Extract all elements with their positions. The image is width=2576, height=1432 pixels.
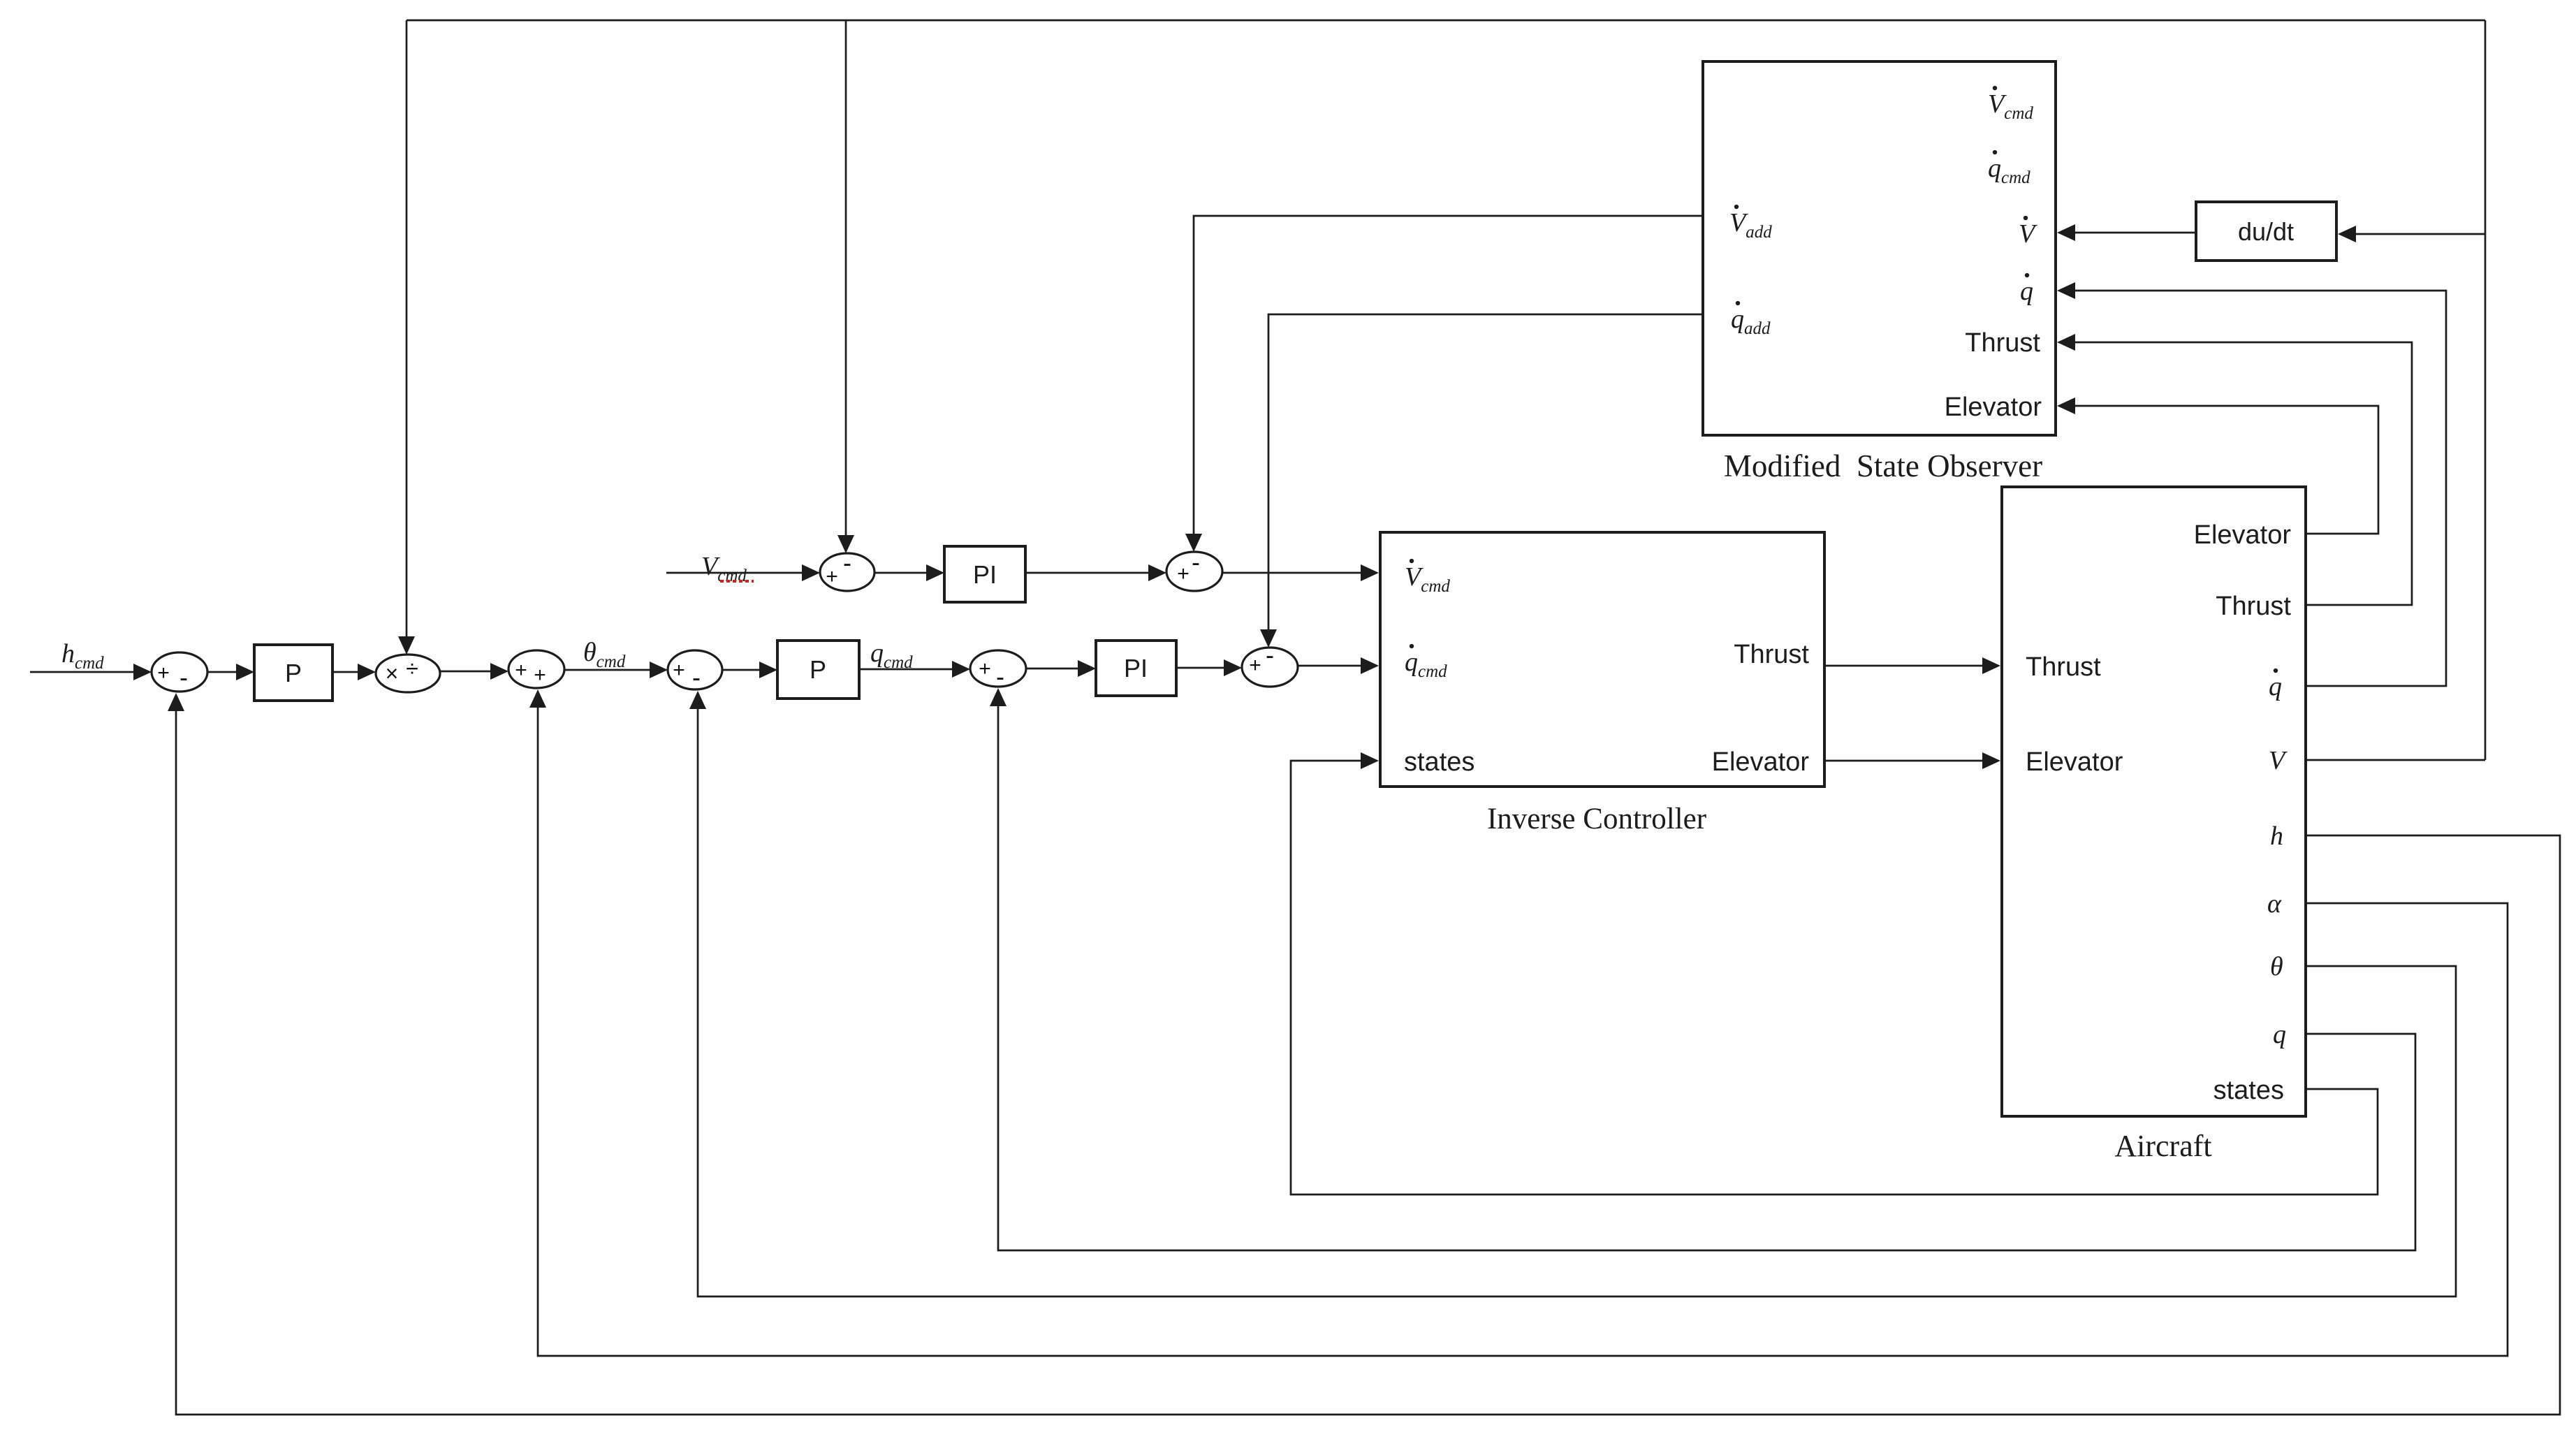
- svg-text:-: -: [180, 663, 188, 692]
- svg-text:÷: ÷: [406, 656, 418, 681]
- svg-text:V: V: [2269, 746, 2288, 775]
- svg-text:Elevator: Elevator: [1712, 747, 1810, 777]
- svg-text:-: -: [1192, 548, 1200, 576]
- svg-text:q: q: [2273, 1020, 2286, 1049]
- svg-text:-: -: [996, 662, 1004, 691]
- svg-text:+: +: [1249, 654, 1261, 677]
- svg-text:du/dt: du/dt: [2238, 217, 2294, 246]
- svg-text:×: ×: [386, 661, 399, 686]
- svg-text:PI: PI: [1124, 654, 1148, 682]
- svg-text:PI: PI: [973, 560, 997, 589]
- svg-text:Aircraft: Aircraft: [2114, 1129, 2211, 1163]
- svg-text:q: q: [2020, 277, 2033, 306]
- svg-text:Thrust: Thrust: [1965, 328, 2040, 358]
- svg-text:Thrust: Thrust: [1734, 640, 1809, 669]
- svg-text:α: α: [2267, 889, 2282, 919]
- svg-text:Elevator: Elevator: [2194, 520, 2292, 550]
- svg-text:V: V: [2019, 219, 2037, 249]
- svg-text:Modified State Observer: Modified State Observer: [1724, 448, 2042, 483]
- svg-text:+: +: [157, 662, 170, 685]
- svg-text:-: -: [1266, 641, 1274, 669]
- svg-text:+: +: [534, 664, 546, 687]
- svg-text:states: states: [2213, 1076, 2284, 1105]
- svg-text:states: states: [1404, 747, 1474, 777]
- svg-text:q: q: [2269, 672, 2282, 701]
- svg-text:θ: θ: [2270, 952, 2283, 981]
- svg-text:-: -: [692, 663, 701, 692]
- svg-text:Elevator: Elevator: [1945, 393, 2042, 422]
- svg-text:h: h: [2270, 821, 2283, 851]
- svg-text:Inverse Controller: Inverse Controller: [1487, 803, 1706, 835]
- svg-text:Thrust: Thrust: [2216, 592, 2291, 621]
- svg-text:-: -: [843, 548, 851, 577]
- svg-text:+: +: [515, 659, 527, 682]
- svg-text:+: +: [979, 657, 991, 680]
- svg-text:P: P: [810, 655, 826, 684]
- svg-text:P: P: [285, 659, 302, 687]
- svg-text:+: +: [1177, 562, 1190, 585]
- svg-text:Elevator: Elevator: [2026, 747, 2123, 777]
- svg-text:+: +: [673, 659, 685, 682]
- svg-text:Thrust: Thrust: [2026, 652, 2101, 682]
- svg-text:+: +: [826, 565, 838, 588]
